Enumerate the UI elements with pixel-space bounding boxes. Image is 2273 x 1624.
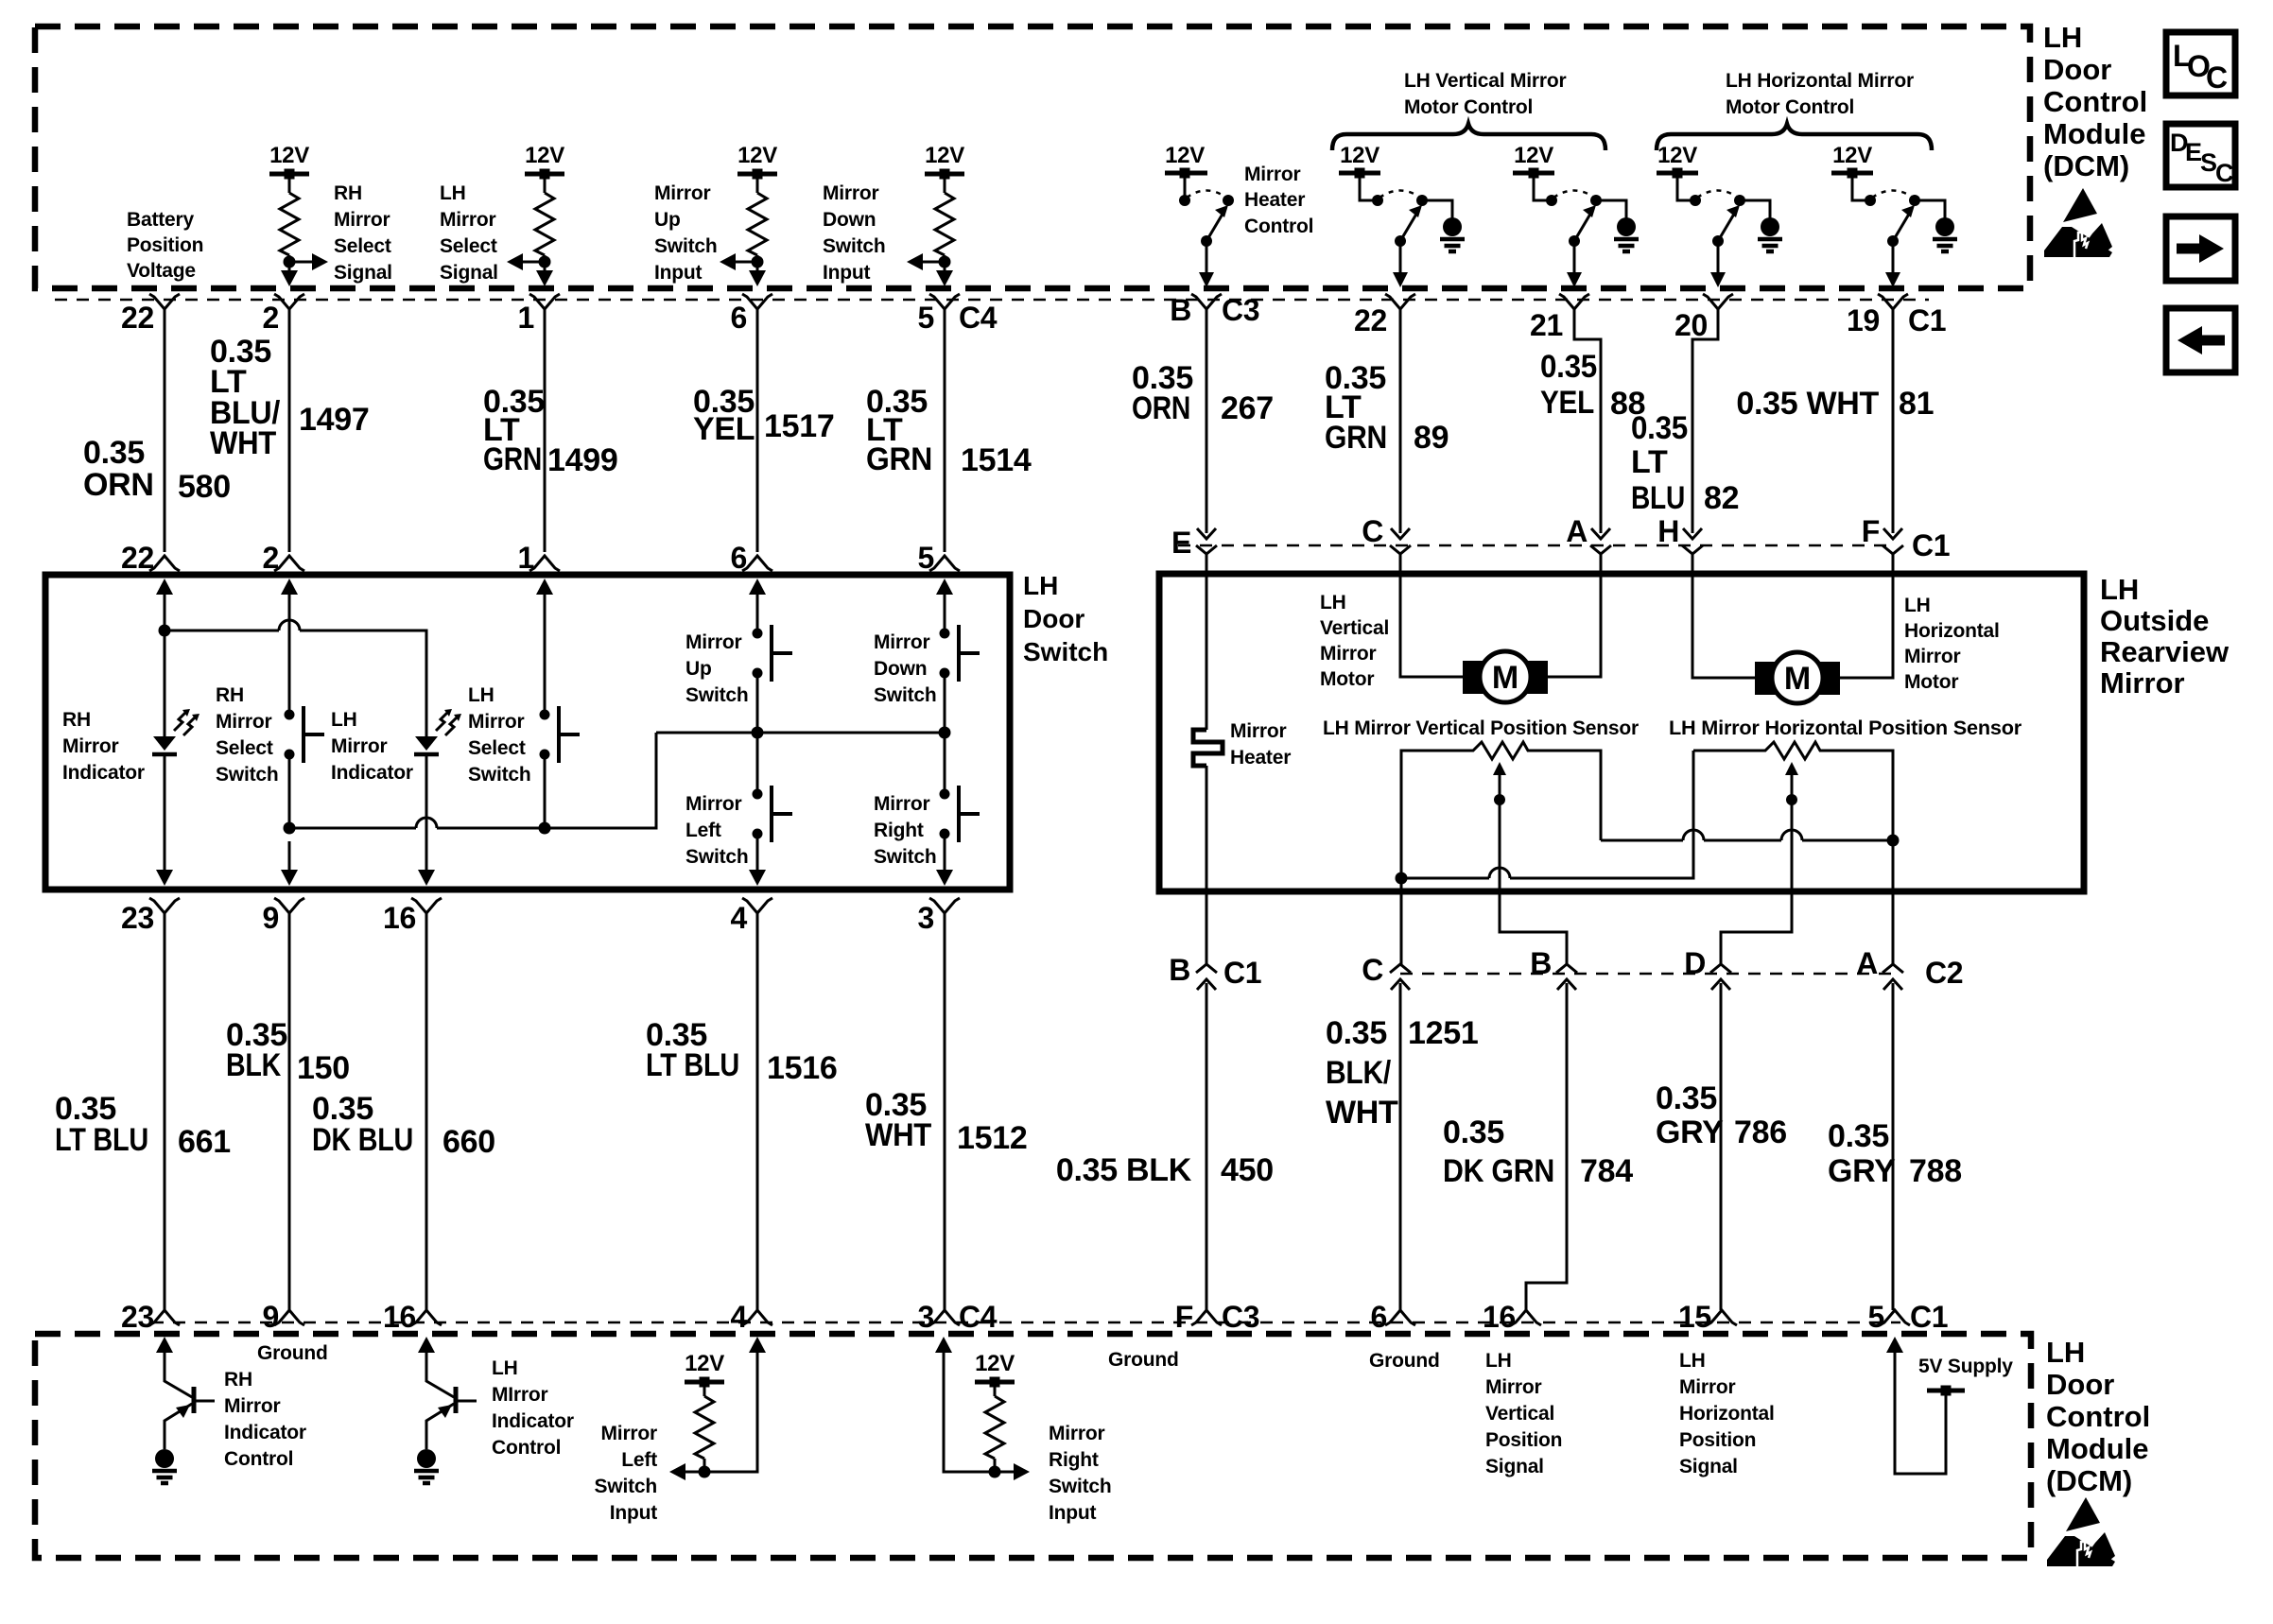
ground (switch S4 contact) <box>1740 200 1782 251</box>
node: RH Mirror Select Switch label <box>216 684 278 786</box>
wire 788 GRY (mirror A to DCM 5) <box>1828 983 1962 1310</box>
svg-text:12V: 12V <box>1514 143 1553 168</box>
svg-text:YEL: YEL <box>1540 385 1594 421</box>
resistor R6 (Mirror Right Switch Input pull-up) with 12V source <box>935 1337 1030 1480</box>
svg-text:6: 6 <box>731 301 748 335</box>
wire 1517 YEL (pin 6 to door switch 6) <box>693 309 834 552</box>
wire: A exit below (to mirror C2 pin A) <box>1892 840 1895 964</box>
wire: pin 2 entry arrow into box <box>281 579 298 715</box>
svg-text:12V: 12V <box>1165 143 1205 168</box>
node: LH Outside Rearview Mirror title <box>2100 573 2230 700</box>
svg-text:Switch: Switch <box>654 235 717 257</box>
LH Door Control Module top dashed box <box>35 26 2030 288</box>
svg-text:Up: Up <box>685 658 712 680</box>
svg-text:3: 3 <box>918 1300 935 1334</box>
node: pin 16 C4 bottom <box>383 1300 442 1334</box>
svg-text:LH Mirror Horizontal Position: LH Mirror Horizontal Position Sensor <box>1669 717 2021 739</box>
switch S6 (RH mirror select, pushbutton) <box>285 706 325 828</box>
svg-text:GRN: GRN <box>866 441 932 477</box>
node: back arrow legend box <box>2166 308 2235 372</box>
wire: heater to box bottom <box>1206 766 1208 964</box>
switch S11 (mirror right, pushbutton) <box>940 786 980 842</box>
svg-text:Switch: Switch <box>468 764 530 786</box>
svg-text:LH: LH <box>440 182 466 204</box>
svg-text:12V: 12V <box>1832 143 1872 168</box>
potentiometer VR1 (LH mirror vertical position sensor) <box>1468 742 1531 805</box>
svg-text:Mirror: Mirror <box>334 209 390 231</box>
node: LH Door Control Module (DCM) title top right <box>2043 21 2147 182</box>
svg-text:Vertical: Vertical <box>1320 617 1389 639</box>
svg-text:150: 150 <box>297 1050 350 1086</box>
node: LH Mirror Horizontal Position Signal label <box>1679 1350 1775 1477</box>
svg-text:Switch: Switch <box>874 846 936 868</box>
node: junction at vertical sensor left bus <box>1396 872 1408 885</box>
node: RH Mirror Indicator Control label <box>224 1369 306 1470</box>
switch S10 (mirror left, pushbutton) <box>753 786 793 842</box>
svg-text:Ground: Ground <box>257 1342 328 1364</box>
svg-text:22: 22 <box>121 301 154 335</box>
svg-text:C1: C1 <box>1908 303 1946 337</box>
node: door switch pin 4 (bottom) <box>731 898 773 935</box>
svg-text:20: 20 <box>1674 308 1708 342</box>
svg-text:21: 21 <box>1530 308 1563 342</box>
node: pin 20 C1 top <box>1674 294 1733 342</box>
svg-text:WHT: WHT <box>1326 1095 1398 1131</box>
node: battery position voltage label <box>127 209 203 282</box>
svg-text:23: 23 <box>121 901 154 935</box>
svg-text:16: 16 <box>383 1300 416 1334</box>
svg-text:Input: Input <box>823 262 871 284</box>
svg-text:Mirror: Mirror <box>331 735 388 757</box>
wire 1516 LT BLU (pin 4 to DCM) <box>646 913 837 1310</box>
svg-text:1516: 1516 <box>767 1050 837 1086</box>
wire 450 BLK (mirror B C1 to DCM F C3, ground) <box>1056 983 1274 1310</box>
svg-text:Indicator: Indicator <box>62 762 145 784</box>
node: Mirror Down Switch label <box>874 631 936 706</box>
potentiometer VR2 (LH mirror horizontal position sensor) <box>1761 742 1823 805</box>
node: pin 16 C1 bottom <box>1483 1300 1541 1334</box>
wire: horizontal sensor left leg from 1791 <box>1693 750 1761 752</box>
svg-text:Motor Control: Motor Control <box>1726 96 1854 118</box>
svg-text:Mirror: Mirror <box>1244 164 1301 185</box>
svg-text:GRY: GRY <box>1656 1114 1724 1150</box>
svg-text:1514: 1514 <box>961 442 1032 478</box>
svg-text:0.35: 0.35 <box>1443 1114 1504 1150</box>
svg-text:12V: 12V <box>1657 143 1697 168</box>
svg-text:DK BLU: DK BLU <box>312 1122 413 1158</box>
node: door switch pin 23 (bottom) <box>121 898 180 935</box>
svg-text:Input: Input <box>1049 1502 1097 1524</box>
svg-text:LT: LT <box>1631 444 1668 480</box>
svg-text:B: B <box>1169 953 1190 987</box>
svg-text:Mirror: Mirror <box>216 711 272 733</box>
svg-text:Switch: Switch <box>685 846 748 868</box>
svg-text:LH: LH <box>1320 592 1346 613</box>
svg-text:Mirror: Mirror <box>224 1395 281 1417</box>
node: pin B C3 top <box>1170 293 1259 327</box>
svg-text:LH: LH <box>331 709 357 731</box>
svg-text:Indicator: Indicator <box>224 1422 306 1443</box>
svg-text:Mirror: Mirror <box>1904 646 1961 667</box>
svg-text:WHT: WHT <box>210 425 276 461</box>
svg-text:Door: Door <box>2043 53 2111 86</box>
switch S5 (LH horizontal mirror motor control B, pin 19) <box>1831 143 1920 287</box>
svg-text:Select: Select <box>216 737 273 759</box>
wire: E column into heater <box>1206 554 1208 730</box>
svg-text:12V: 12V <box>269 143 309 168</box>
svg-text:19: 19 <box>1847 303 1880 337</box>
ground (Q2 emitter) <box>414 1449 439 1483</box>
svg-text:LH: LH <box>492 1357 518 1379</box>
svg-text:(DCM): (DCM) <box>2043 149 2129 182</box>
node: pin 22 C4 top <box>121 294 180 335</box>
svg-text:12V: 12V <box>1340 143 1379 168</box>
node: Mirror Left Switch label <box>685 793 748 868</box>
wire: connector row 4 dashed line <box>151 1322 1900 1324</box>
node: mirror pin B C2 <box>1530 946 1577 990</box>
svg-text:WHT: WHT <box>865 1117 931 1153</box>
svg-text:GRN: GRN <box>1325 420 1387 456</box>
svg-text:Switch: Switch <box>1049 1476 1111 1497</box>
svg-text:Position: Position <box>1679 1429 1756 1451</box>
switch S2 (LH vertical mirror motor control A, pin 22) <box>1339 143 1428 287</box>
node: mirror pin A <box>1566 514 1611 554</box>
transistor Q1 (RH mirror indicator control) <box>156 1337 215 1449</box>
svg-text:BLK: BLK <box>226 1047 282 1083</box>
LH Door Control Module bottom dashed box <box>35 1334 2031 1558</box>
svg-text:3: 3 <box>918 901 935 935</box>
node: pin 4 C4 bottom <box>731 1300 773 1334</box>
resistor R4 (Mirror Down Switch Input pull-up) with 12V source <box>907 143 964 286</box>
wire: mirror C2 dashed line <box>1400 973 1893 976</box>
node: LH Door Control Module (DCM) title bottom right <box>2046 1336 2150 1497</box>
svg-text:RH: RH <box>62 709 91 731</box>
svg-text:C4: C4 <box>959 1300 998 1334</box>
svg-text:GRY: GRY <box>1828 1153 1896 1189</box>
wire 580 ORN (pin 22 to door switch 22) <box>83 309 231 552</box>
node: mirror pin E <box>1171 526 1217 560</box>
wire: vertical sensor wiper down <box>1500 800 1567 964</box>
svg-text:786: 786 <box>1734 1114 1787 1150</box>
svg-text:RH: RH <box>216 684 244 706</box>
node: door switch pin 1 (top) <box>518 541 561 575</box>
wire 661 LT BLU (pin 23 to DCM) <box>55 913 231 1310</box>
wire: pin 9 exit arrow <box>281 841 298 886</box>
svg-text:LH: LH <box>2043 21 2082 54</box>
svg-text:Input: Input <box>654 262 703 284</box>
node: door switch pin 6 (top) <box>731 541 773 575</box>
node: Mirror Right Switch Input label <box>1049 1423 1111 1524</box>
node: pin 19 C1 top <box>1847 294 1946 337</box>
node: mirror pin D C2 <box>1684 946 1731 990</box>
svg-text:784: 784 <box>1580 1153 1633 1189</box>
svg-text:LH: LH <box>1485 1350 1512 1372</box>
resistor R1 (RH Mirror Select Signal pull-up) with 12V source <box>269 143 328 286</box>
svg-text:Switch: Switch <box>874 684 936 706</box>
node: door switch pin 16 (bottom) <box>383 898 442 935</box>
svg-text:C: C <box>1362 953 1383 987</box>
svg-text:A: A <box>1856 946 1878 980</box>
svg-text:C3: C3 <box>1222 1300 1259 1334</box>
svg-text:MIrror: MIrror <box>492 1384 548 1406</box>
svg-text:788: 788 <box>1909 1153 1962 1189</box>
ground (Q1 emitter) <box>152 1449 177 1483</box>
svg-text:Battery: Battery <box>127 209 194 231</box>
svg-text:Right: Right <box>1049 1449 1099 1471</box>
svg-text:1497: 1497 <box>299 402 369 438</box>
svg-text:5: 5 <box>1868 1300 1885 1334</box>
wire: vertical sensor right leg <box>1531 751 1601 840</box>
wire: pin 4 exit arrow <box>749 841 766 886</box>
node: LH Door Switch title <box>1023 571 1108 666</box>
wire 81 WHT (pin 19 to mirror F) <box>1736 309 1934 533</box>
switch S8 (mirror up, pushbutton) <box>753 625 793 794</box>
node: Mirror Heater Control label <box>1244 164 1313 237</box>
svg-text:C1: C1 <box>1912 528 1950 562</box>
wire: connector row 1 dashed line <box>55 299 1929 302</box>
wire: vertical motor to A column <box>1546 554 1601 677</box>
svg-text:Position: Position <box>127 234 203 256</box>
svg-text:Ground: Ground <box>1108 1349 1179 1371</box>
wire: pin 23 exit arrow <box>156 841 173 886</box>
svg-text:Mirror: Mirror <box>601 1423 658 1444</box>
svg-text:1499: 1499 <box>547 442 617 478</box>
wire 1499 LT GRN (pin 1 to door switch 1) <box>483 309 617 552</box>
wire 1512 WHT (pin 3 to DCM) <box>865 913 1027 1310</box>
svg-text:Signal: Signal <box>1679 1456 1738 1477</box>
switch S1 (Mirror Heater Control, in DCM) <box>1165 143 1234 287</box>
svg-text:Select: Select <box>334 235 391 257</box>
svg-text:Module: Module <box>2043 117 2146 150</box>
svg-text:Switch: Switch <box>685 684 748 706</box>
svg-text:LH: LH <box>1023 571 1058 600</box>
node: door switch pin 2 (top) <box>263 541 305 575</box>
svg-text:Mirror: Mirror <box>468 711 525 733</box>
svg-text:0.35: 0.35 <box>1828 1118 1889 1154</box>
node: mirror pin C <box>1362 514 1411 554</box>
svg-text:1512: 1512 <box>957 1120 1027 1156</box>
svg-text:9: 9 <box>263 1300 280 1334</box>
svg-text:C2: C2 <box>1925 956 1963 990</box>
svg-text:B: B <box>1170 293 1191 327</box>
ground (switch S5 contact) <box>1915 200 1957 251</box>
svg-text:82: 82 <box>1704 480 1739 516</box>
wire: select bus to up/down switch columns <box>656 727 951 739</box>
wire: bus 889 (vertical sensor right to A exit, hops over 1791 and 1895) <box>1601 830 1893 840</box>
node: ESD sensitivity symbol top <box>2044 188 2112 257</box>
node: LH Mirror Indicator Control label <box>492 1357 574 1459</box>
svg-text:Switch: Switch <box>595 1476 657 1497</box>
svg-text:Mirror: Mirror <box>874 793 930 815</box>
node: Mirror Heater label <box>1230 720 1291 769</box>
svg-text:1: 1 <box>518 301 535 335</box>
transistor Q2 (LH mirror indicator control) <box>418 1337 477 1449</box>
svg-text:1251: 1251 <box>1408 1015 1478 1051</box>
wire: C column to vertical motor <box>1400 554 1465 677</box>
svg-text:660: 660 <box>442 1124 495 1160</box>
wire 1251 BLK/WHT (mirror C to DCM 6, ground) <box>1326 983 1478 1310</box>
node: Mirror Up Switch Input label <box>654 182 717 284</box>
node: LH Vertical Mirror Motor Control label + brace <box>1332 70 1605 150</box>
svg-text:DK GRN: DK GRN <box>1443 1153 1554 1189</box>
svg-text:0.35 BLK: 0.35 BLK <box>1056 1152 1192 1188</box>
svg-text:Vertical: Vertical <box>1485 1403 1554 1425</box>
node: LH Vertical Mirror Motor label <box>1320 592 1389 690</box>
svg-text:ORN: ORN <box>1132 390 1190 426</box>
svg-text:C: C <box>2206 60 2228 95</box>
node: LH Mirror Select Switch label <box>468 684 530 786</box>
node: Mirror Right Switch label <box>874 793 936 868</box>
svg-text:5: 5 <box>918 301 935 335</box>
svg-text:LH Horizontal Mirror: LH Horizontal Mirror <box>1726 70 1914 92</box>
svg-text:Ground: Ground <box>1369 1350 1440 1372</box>
svg-text:89: 89 <box>1414 420 1449 456</box>
svg-text:Horizontal: Horizontal <box>1904 620 2000 642</box>
svg-text:LH Mirror Vertical Position Se: LH Mirror Vertical Position Sensor <box>1323 717 1639 739</box>
svg-text:2: 2 <box>263 301 280 335</box>
node: junction at bus 889 / A exit <box>1887 835 1900 847</box>
svg-text:Control: Control <box>224 1448 293 1470</box>
wire 1514 LT GRN (pin 5 to door switch 5) <box>866 309 1032 552</box>
svg-text:Mirror: Mirror <box>874 631 930 653</box>
svg-text:RH: RH <box>334 182 362 204</box>
node: door switch pin 9 (bottom) <box>263 898 305 935</box>
svg-text:Mirror: Mirror <box>1485 1376 1542 1398</box>
LED D1 (RH mirror indicator) <box>152 625 200 842</box>
svg-text:12V: 12V <box>525 143 564 168</box>
wire 150 BLK (pin 9 to DCM ground) <box>226 913 350 1310</box>
svg-text:Down: Down <box>874 658 927 680</box>
wire: pin 22 entry arrow into box <box>156 579 173 631</box>
svg-text:267: 267 <box>1221 390 1274 426</box>
svg-text:0.35: 0.35 <box>1326 1015 1387 1051</box>
svg-text:Rearview: Rearview <box>2100 635 2230 668</box>
node: RH Mirror Select Signal label <box>334 182 392 284</box>
svg-text:Indicator: Indicator <box>492 1410 574 1432</box>
svg-text:Control: Control <box>2046 1400 2150 1433</box>
svg-text:1517: 1517 <box>764 408 834 444</box>
svg-text:12V: 12V <box>975 1351 1015 1376</box>
svg-text:Switch: Switch <box>1023 637 1108 666</box>
svg-text:Mirror: Mirror <box>1679 1376 1736 1398</box>
svg-text:Mirror: Mirror <box>654 182 711 204</box>
node: pin 6 C1 bottom <box>1371 1300 1416 1334</box>
svg-text:D: D <box>1684 946 1706 980</box>
svg-text:Door: Door <box>2046 1368 2114 1401</box>
svg-text:16: 16 <box>383 901 416 935</box>
svg-text:ORN: ORN <box>83 467 154 503</box>
svg-text:Module: Module <box>2046 1432 2149 1465</box>
node: door switch pin 5 (top) <box>918 541 961 575</box>
node: 5V supply in DCM <box>1886 1337 2013 1474</box>
node: door switch pin 3 (bottom) <box>918 898 961 935</box>
svg-text:Right: Right <box>874 820 924 841</box>
svg-text:Signal: Signal <box>1485 1456 1544 1477</box>
node: LH Horizontal Mirror Motor Control label + brace <box>1657 70 1932 150</box>
svg-text:Mirror: Mirror <box>440 209 496 231</box>
svg-text:RH: RH <box>224 1369 252 1391</box>
svg-text:LT BLU: LT BLU <box>646 1047 739 1083</box>
svg-text:A: A <box>1566 514 1588 548</box>
heater HE1 (mirror heater element) <box>1193 730 1223 766</box>
svg-text:C1: C1 <box>1223 956 1261 990</box>
svg-text:Switch: Switch <box>216 764 278 786</box>
node: forward arrow legend box <box>2166 216 2235 281</box>
svg-text:Mirror: Mirror <box>823 182 879 204</box>
svg-text:661: 661 <box>178 1124 231 1160</box>
resistor R2 (LH Mirror Select Signal pull-up) with 12V source <box>507 143 564 286</box>
svg-text:Outside: Outside <box>2100 604 2209 637</box>
svg-text:Mirror: Mirror <box>2100 666 2185 700</box>
svg-text:BLU: BLU <box>1631 480 1685 516</box>
wire: pin 3 exit arrow <box>936 841 953 886</box>
svg-text:12V: 12V <box>685 1351 724 1376</box>
switch S7 (LH mirror select, pushbutton) <box>540 706 581 828</box>
node: ESD sensitivity symbol bottom <box>2047 1497 2115 1566</box>
wire: C exit below (sensor left to mirror C2 pin C) <box>1400 878 1403 964</box>
svg-text:Mirror: Mirror <box>1320 643 1377 665</box>
wire 660 DK BLU (pin 16 to DCM) <box>312 913 495 1310</box>
svg-text:YEL: YEL <box>693 411 755 447</box>
svg-text:Signal: Signal <box>334 262 392 284</box>
LED D2 (LH mirror indicator) <box>414 709 461 841</box>
wire 88 YEL (pin 21 to mirror A, jogged) <box>1540 309 1645 533</box>
svg-text:0.35: 0.35 <box>1656 1080 1717 1116</box>
wire: pin 6 entry arrow into box <box>749 579 766 633</box>
node: LH Door Switch box <box>45 575 1010 890</box>
svg-text:LH: LH <box>1679 1350 1706 1372</box>
svg-text:Door: Door <box>1023 604 1084 633</box>
svg-text:Mirror: Mirror <box>1230 720 1287 742</box>
wire: top link RH indicator to LH indicator column (hop over col 306) <box>165 620 426 736</box>
motor M1 (LH vertical mirror motor) <box>1463 651 1548 702</box>
node: LH Mirror Indicator label <box>331 709 413 784</box>
wire 786 GRY (mirror D to DCM 15) <box>1656 983 1787 1310</box>
svg-text:C4: C4 <box>959 301 998 335</box>
wire: horizontal sensor right leg <box>1823 751 1893 840</box>
svg-text:Select: Select <box>440 235 497 257</box>
svg-text:0.35 WHT: 0.35 WHT <box>1736 386 1879 422</box>
node: pin 3 C4 bottom <box>918 1300 998 1334</box>
svg-text:LH: LH <box>1904 595 1931 616</box>
svg-text:4: 4 <box>731 901 748 935</box>
svg-text:15: 15 <box>1678 1300 1711 1334</box>
svg-text:C3: C3 <box>1222 293 1259 327</box>
svg-text:23: 23 <box>121 1300 154 1334</box>
wire: bottom link bus (RH select to LH select, hop over col 451) <box>284 733 657 835</box>
svg-text:GRN: GRN <box>483 441 542 477</box>
node: pin F C3 bottom <box>1175 1300 1260 1334</box>
svg-text:12V: 12V <box>925 143 964 168</box>
svg-text:4: 4 <box>731 1300 748 1334</box>
node: Mirror Left Switch Input label <box>595 1423 658 1524</box>
switch S3 (LH vertical mirror motor control B, pin 21) <box>1513 143 1602 287</box>
svg-text:C: C <box>1362 514 1383 548</box>
ground (switch S3 contact) <box>1596 200 1639 251</box>
node: pin 15 C1 bottom <box>1678 1300 1737 1334</box>
svg-text:Heater: Heater <box>1244 189 1305 211</box>
svg-text:Heater: Heater <box>1230 747 1291 769</box>
svg-text:Left: Left <box>621 1449 657 1471</box>
svg-text:6: 6 <box>1371 1300 1388 1334</box>
motor M2 (LH horizontal mirror motor) <box>1755 652 1840 703</box>
svg-text:BLK/: BLK/ <box>1326 1055 1392 1091</box>
svg-text:9: 9 <box>263 901 280 935</box>
svg-text:Switch: Switch <box>823 235 885 257</box>
svg-text:C: C <box>2215 159 2234 187</box>
node: mirror pin A C2 <box>1856 946 1963 990</box>
svg-text:Signal: Signal <box>440 262 498 284</box>
